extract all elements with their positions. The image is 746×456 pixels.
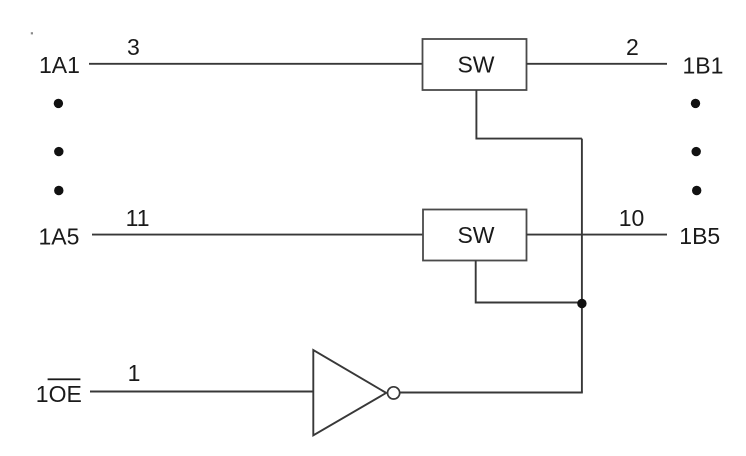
svg-text:SW: SW: [457, 52, 494, 78]
wire control bus vertical: [581, 139, 583, 393]
wire inverter output to control bus: [401, 392, 583, 394]
svg-text:3: 3: [127, 34, 140, 60]
svg-text:1A5: 1A5: [39, 223, 80, 249]
ellipsis right (channels 2-4): [691, 99, 702, 195]
svg-text:1B1: 1B1: [683, 53, 724, 79]
node 1OE (active low): [36, 378, 82, 406]
inverter U1 bubble: [388, 387, 400, 399]
wire SW1 control (bottom of SW1 down and right to bus): [476, 90, 582, 139]
wire SW2 to 1B5: [527, 234, 668, 236]
junction: [577, 299, 586, 308]
switch SW1: [423, 39, 527, 90]
svg-text:10: 10: [619, 205, 645, 231]
ellipsis left (channels 2-4): [54, 99, 64, 195]
switch SW2: [423, 210, 527, 261]
wire 1A5 to SW2: [92, 234, 423, 236]
wire SW2 control (bottom of SW2 down and right to bus): [476, 261, 582, 303]
svg-text:SW: SW: [457, 222, 494, 248]
stray dot: [31, 32, 33, 34]
svg-text:2: 2: [626, 34, 639, 60]
wire 1A1 to SW1: [89, 63, 423, 65]
wire 1OE to inverter U1: [90, 391, 314, 393]
wire SW1 to 1B1: [527, 63, 668, 65]
svg-text:11: 11: [126, 205, 150, 231]
inverter U1: [313, 350, 386, 435]
svg-text:1: 1: [128, 360, 141, 386]
svg-text:1B5: 1B5: [679, 223, 720, 249]
svg-text:1OE: 1OE: [36, 381, 82, 407]
svg-text:1A1: 1A1: [39, 52, 80, 78]
